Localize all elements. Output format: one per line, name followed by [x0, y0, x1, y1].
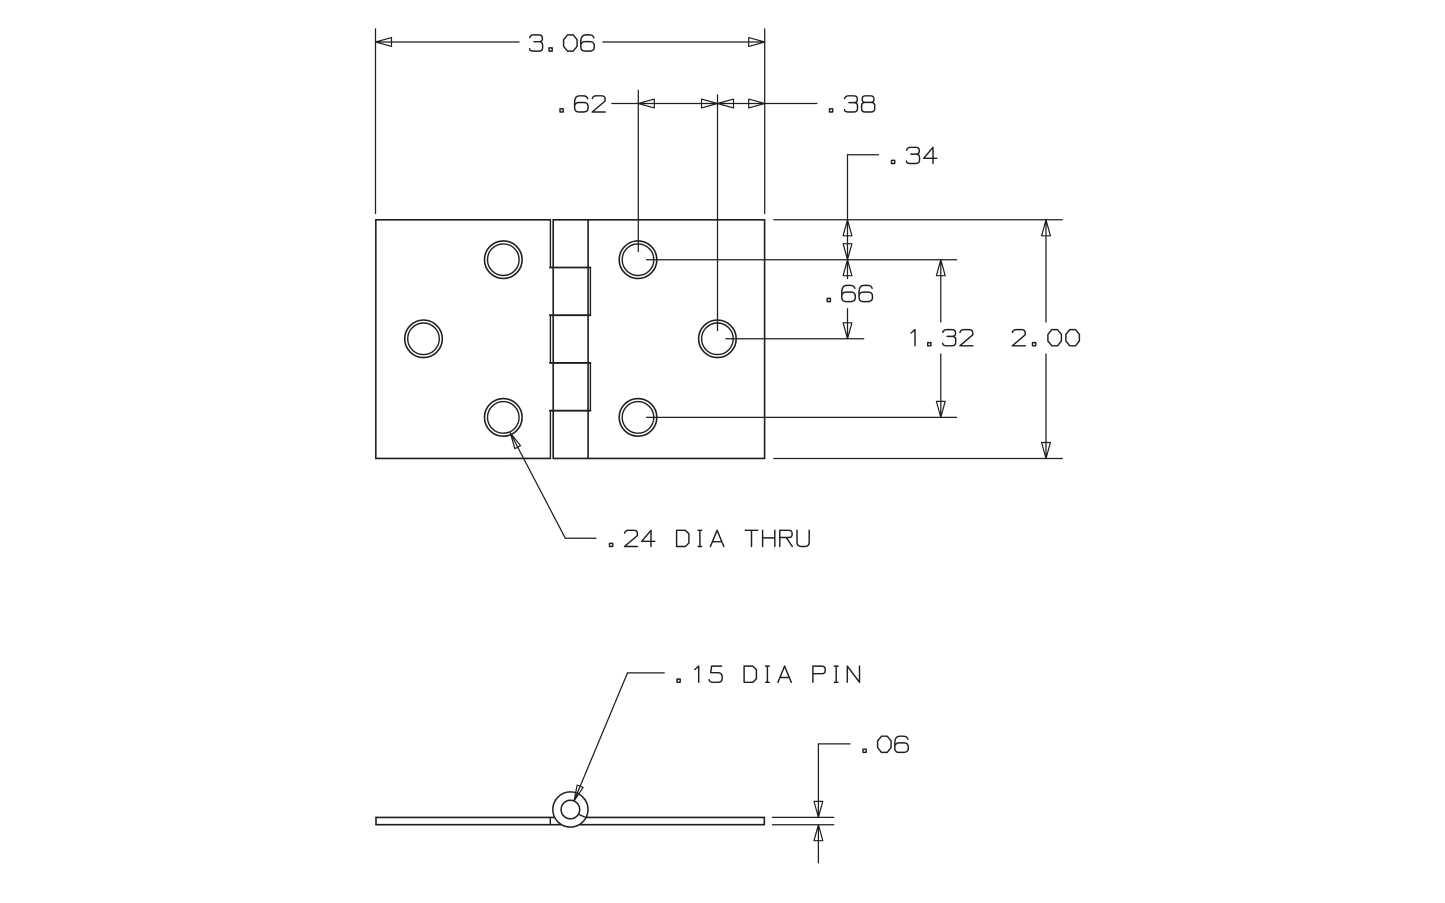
dim 3.06 arrow right	[749, 38, 765, 47]
dim .66 arrow down	[843, 323, 852, 339]
dim text 2.00	[1012, 330, 1079, 346]
dim 2.00 arrow up	[1042, 220, 1051, 236]
dim text .66	[827, 285, 872, 301]
dim 3.06 line	[376, 41, 765, 43]
hole right middle	[699, 320, 737, 358]
side view leaf curl	[577, 814, 586, 818]
extension line hole top center	[637, 90, 639, 251]
dim .06 leader	[818, 744, 850, 818]
hole left top	[485, 241, 523, 279]
dim text .06	[863, 736, 908, 752]
dim .34 leader	[848, 155, 879, 260]
leader .15 arrow	[571, 785, 583, 802]
dim .38 line	[718, 103, 817, 105]
line from middle hole center	[726, 338, 864, 340]
note text .15 DIA PIN	[677, 666, 860, 682]
dim text .38	[830, 96, 875, 112]
note text .24 DIA THRU	[610, 530, 810, 546]
dim 1.32 arrow down	[936, 401, 945, 417]
dim .06 arrow down	[814, 801, 823, 817]
hole right bottom	[619, 399, 657, 437]
hole right top	[619, 241, 657, 279]
leader .24 line	[510, 433, 596, 538]
dim text .62	[560, 96, 605, 112]
line from top hole center	[647, 259, 957, 261]
extension of hinge top edge	[774, 219, 1063, 221]
dim text .34	[892, 147, 937, 163]
dim .62 arrow right	[702, 99, 718, 108]
right leaf outline	[553, 220, 764, 459]
hinge barrel right line	[587, 220, 589, 459]
hole left middle	[405, 320, 443, 358]
dim text 3.06	[530, 35, 595, 51]
dim .38 arrow left	[718, 99, 734, 108]
knuckle joint lines	[550, 268, 591, 411]
left leaf outline	[376, 220, 551, 459]
dim 3.06 arrow left	[376, 38, 392, 47]
dim .38 arrow right	[749, 99, 765, 108]
dim 2.00 arrow down	[1042, 443, 1051, 459]
dim .62 arrow left	[638, 99, 654, 108]
dim .66 arrow up	[843, 260, 852, 276]
dim .34 arrow up	[843, 220, 852, 236]
side view pin	[561, 800, 580, 819]
dim .06 extension bottom	[772, 824, 833, 826]
right leaf edge at barrel (segments 2,4)	[589, 268, 591, 411]
dim .66 line	[847, 260, 849, 339]
dim .06 extension top	[772, 816, 833, 818]
line from bottom hole center	[647, 416, 957, 418]
dim 1.32 arrow up	[936, 260, 945, 276]
hinge barrel left line	[552, 220, 554, 459]
dim 1.32 line	[940, 260, 942, 418]
hole left bottom	[485, 399, 523, 437]
dim 3.06 extension line left	[375, 29, 377, 214]
dim .34 arrow down	[843, 244, 852, 260]
leader .24 arrow	[507, 432, 520, 449]
left leaf edge at barrel (segments 1,3,5)	[549, 220, 551, 459]
dim 3.06 extension line right	[764, 29, 766, 214]
dim 2.00 line	[1045, 220, 1047, 459]
dim .06 arrow up	[814, 825, 823, 841]
extension of hinge bottom edge	[774, 458, 1063, 460]
dim .06 line below	[817, 825, 819, 863]
side view barrel outer	[553, 792, 588, 827]
side view leaf bar	[376, 817, 764, 824]
side view knuckle edge	[549, 817, 551, 824]
dim .62 line	[612, 103, 718, 105]
dim text 1.32	[911, 330, 973, 346]
leader .15 line	[574, 673, 664, 801]
extension line hole mid center	[717, 95, 719, 331]
